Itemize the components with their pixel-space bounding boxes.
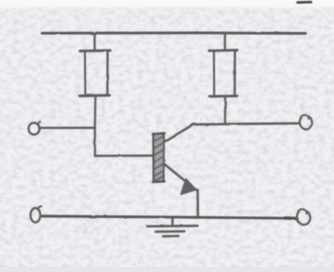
wire: top supply rail — [42, 31, 306, 34]
transistor: emitter lead — [164, 164, 196, 190]
terminal (bottom left, circle) — [31, 206, 42, 222]
resistor (left) — [80, 50, 111, 96]
scan mark at top edge — [298, 1, 312, 4]
ground — [147, 218, 197, 236]
terminal (bottom right, loop) — [297, 209, 310, 225]
wire: input terminal to base branch — [39, 127, 95, 129]
wire: top rail to left resistor — [93, 33, 95, 50]
transistor: collector lead — [164, 125, 193, 142]
wire: base lead into transistor — [95, 154, 153, 157]
faint pencil smudges (background) — [80, 219, 99, 238]
transistor: base bar — [153, 133, 165, 182]
input terminal (left, circle) — [29, 121, 41, 134]
resistor (right) — [209, 50, 237, 96]
wire: emitter down to bottom rail — [197, 190, 199, 217]
wire: right resistor down to collector node — [224, 96, 226, 124]
wire: top rail to right resistor — [224, 33, 226, 50]
wire: collector node to output terminal — [192, 123, 299, 124]
output terminal (right, loop) — [300, 115, 312, 129]
wire: bottom rail end blob — [285, 216, 297, 220]
wire: bottom rail — [41, 216, 295, 218]
transistor: emitter arrowhead — [181, 179, 196, 195]
wire: left resistor down to base node — [94, 96, 97, 156]
